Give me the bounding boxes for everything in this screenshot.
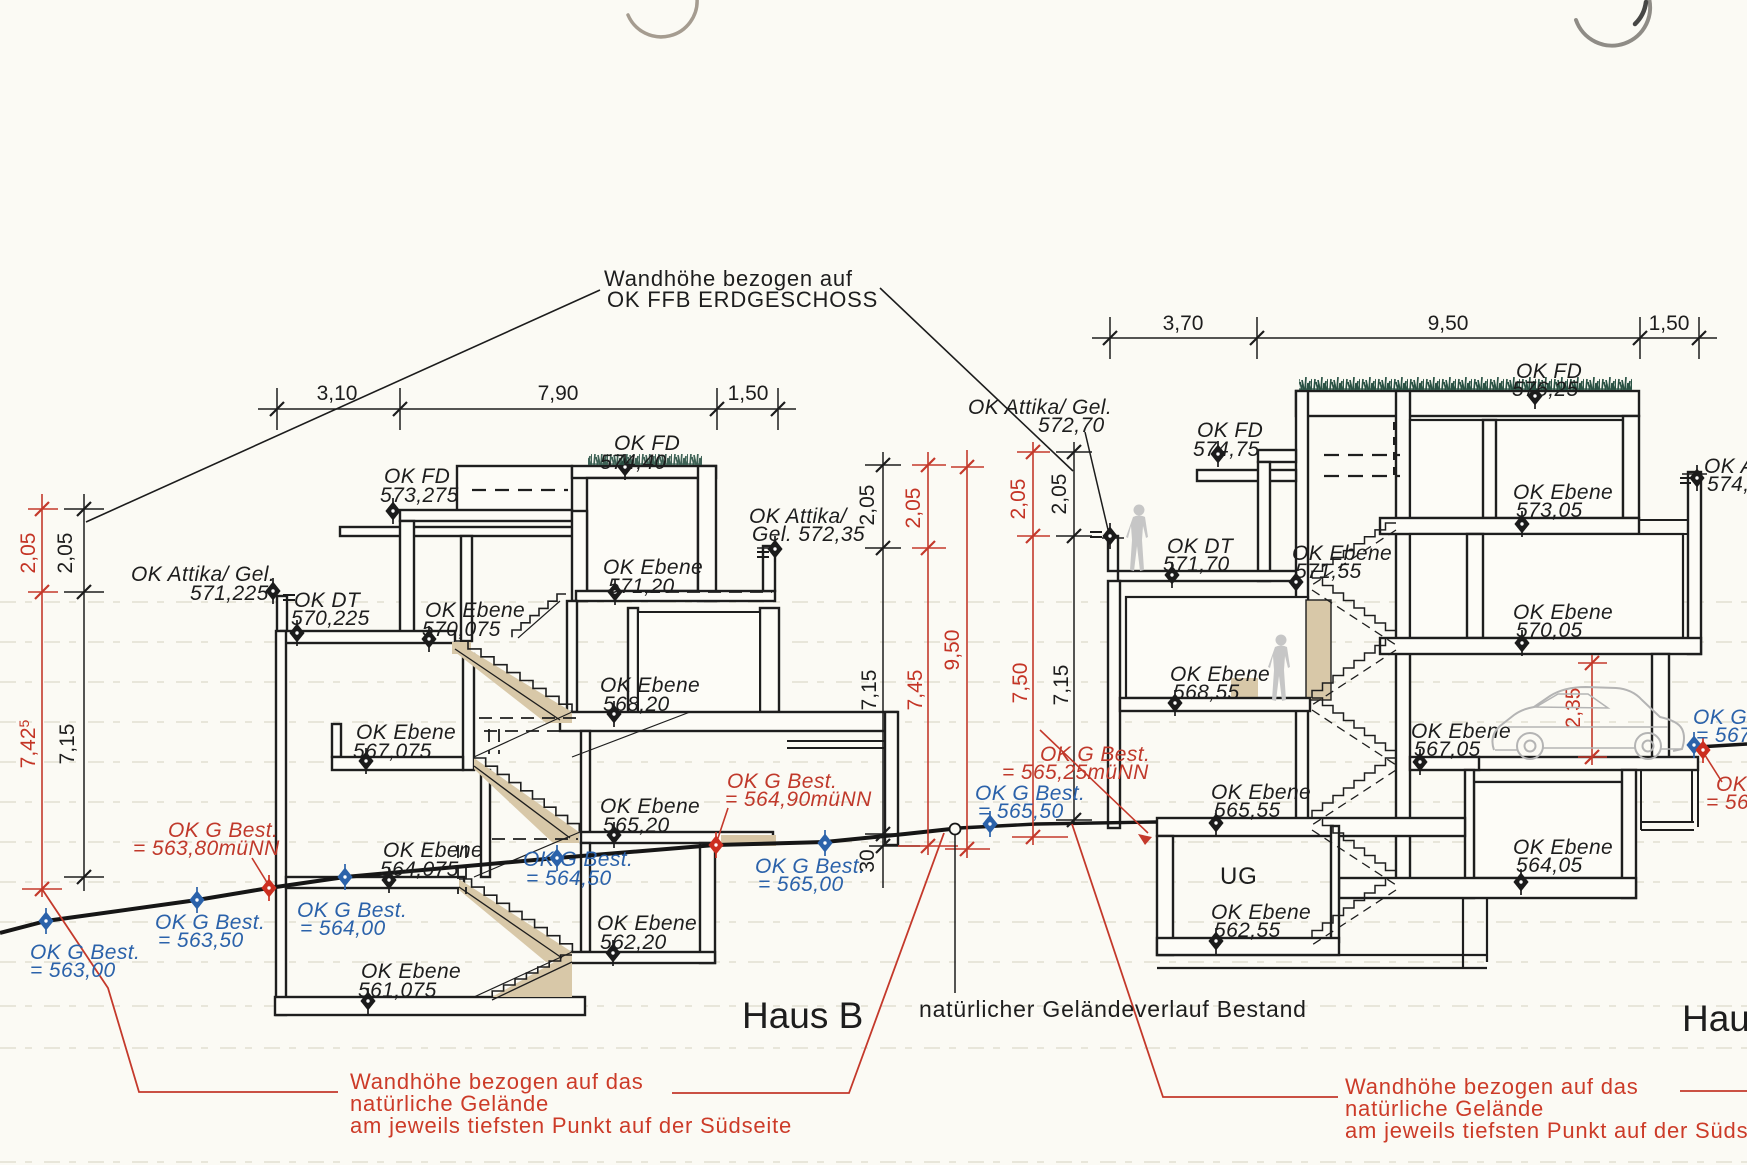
svg-text:568,20: 568,20 [603, 693, 670, 716]
svg-text:= 563,80müNN: = 563,80müNN [133, 837, 280, 860]
grass on right tower roof [1299, 377, 1632, 392]
red vertical x928 2,05/7,45 [927, 452, 929, 855]
floor slab OK Ebene 562,20 [570, 952, 715, 963]
room OK Ebene 568,55 [1126, 597, 1308, 698]
beige door in 568 room [1231, 678, 1258, 700]
red vertical x967 9,50 [966, 450, 968, 858]
red leader right bottom text [1072, 824, 1338, 1097]
parapet upstand at 567,075 [332, 724, 341, 757]
red terrain diamonds [261, 737, 1710, 901]
red leader 564,90 text to diamond [717, 808, 728, 841]
canopy slab [340, 527, 653, 536]
upper room [587, 478, 698, 591]
floor slab OK Ebene 568,20 [560, 712, 897, 731]
tower right wall [1396, 391, 1410, 890]
dashed storage in tower top [1324, 455, 1400, 476]
balcony slab right 573 level [1639, 520, 1697, 534]
svg-text:567,05: 567,05 [1414, 738, 1481, 761]
stair flight F0 [512, 594, 566, 637]
svg-text:= 564,00: = 564,00 [300, 917, 386, 940]
diagonal section lines in stair zone [474, 601, 690, 997]
floor slab OK Ebene 571,20 [576, 591, 775, 601]
svg-text:574,45: 574,45 [1707, 473, 1747, 496]
red leader left bottom text [42, 889, 338, 1092]
svg-text:2,05: 2,05 [902, 488, 925, 529]
UG right wall [1331, 826, 1339, 942]
right wall top room [1623, 416, 1639, 518]
svg-text:7,90: 7,90 [538, 382, 579, 405]
stair flight F2 [474, 758, 579, 832]
terrace slab OK DT 571,70 [1118, 571, 1296, 581]
leaders [42, 288, 1747, 1097]
svg-text:am jeweils tiefsten Punkt auf: am jeweils tiefsten Punkt auf der Südsei… [1345, 1118, 1747, 1143]
person on terrace [1126, 505, 1148, 572]
svg-text:567,075: 567,075 [353, 740, 432, 763]
floor slab OK Ebene 570,05 [1380, 638, 1701, 654]
svg-text:am jeweils tiefsten Punkt auf: am jeweils tiefsten Punkt auf der Südsei… [350, 1113, 792, 1138]
svg-text:1,50: 1,50 [728, 382, 769, 405]
svg-text:2,05: 2,05 [54, 533, 77, 574]
penthouse box roof OK FD 574,40 [457, 466, 572, 511]
svg-text:1,50: 1,50 [1649, 312, 1690, 335]
left outer wall [1108, 581, 1120, 828]
wall left of 562,20 room [581, 843, 590, 952]
svg-text:= 56: = 56 [1706, 791, 1747, 814]
svg-text:= 567,: = 567, [1696, 724, 1747, 747]
svg-text:= 564,90müNN: = 564,90müNN [725, 788, 872, 811]
stair flight F4 [492, 955, 572, 997]
dimension lines [64, 317, 1717, 891]
wall under OK FD 573,275 [400, 521, 414, 641]
top room of right part [1410, 420, 1623, 518]
markers [38, 383, 1710, 1014]
svg-text:7,15: 7,15 [56, 724, 79, 765]
svg-text:570,225: 570,225 [291, 607, 370, 630]
svg-text:7,15: 7,15 [858, 670, 881, 711]
svg-text:2,05: 2,05 [856, 485, 879, 526]
walls room 564 [1465, 770, 1474, 898]
left outer wall [276, 631, 286, 1015]
annex terrace thin slab [787, 741, 885, 748]
car silhouette [1492, 687, 1684, 759]
black level diamonds [265, 383, 1704, 1014]
svg-text:571,55: 571,55 [1295, 560, 1362, 583]
wall left of upper room [572, 511, 587, 601]
svg-text:565,55: 565,55 [1214, 799, 1281, 822]
red dimension lines [22, 442, 1607, 897]
floor slab OK Ebene 564,075 [286, 877, 464, 888]
car level floor slab [1472, 757, 1698, 770]
svg-text:9,50: 9,50 [1428, 312, 1469, 335]
person in room [1268, 635, 1290, 702]
svg-text:= 563,50: = 563,50 [158, 929, 244, 952]
svg-text:576,25: 576,25 [1512, 378, 1579, 401]
svg-text:7,50: 7,50 [1009, 663, 1032, 704]
mid vertical dim black x883 2,05/7,15/30 [882, 452, 884, 888]
ground line right of building [1698, 744, 1747, 747]
svg-text:562,20: 562,20 [600, 931, 667, 954]
svg-text:573,05: 573,05 [1516, 499, 1583, 522]
red dim 2,35 at car [1591, 655, 1593, 765]
svg-text:571,225: 571,225 [190, 582, 269, 605]
wall under 570,05 right [1652, 654, 1669, 758]
terrain line [0, 744, 1747, 933]
canopy OK FD 574,75 [1197, 470, 1296, 481]
hidden dashed lines stair zone [458, 592, 772, 894]
svg-text:= 565,00: = 565,00 [758, 873, 844, 896]
svg-text:574,40: 574,40 [600, 451, 667, 474]
svg-text:574,75: 574,75 [1193, 438, 1260, 461]
floor slab OK Ebene 573,05 [1380, 518, 1639, 534]
svg-text:= 563,00: = 563,00 [30, 959, 116, 982]
right vertical dim black x1074 2,05/7,15 [1073, 442, 1075, 822]
svg-text:Gel. 572,35: Gel. 572,35 [752, 523, 865, 546]
svg-text:570,05: 570,05 [1516, 619, 1583, 642]
left red vertical 2,05 / 7,42-5 [41, 494, 43, 897]
floor slab OK Ebene 565,55 [1157, 818, 1465, 836]
left vertical dim 2,05 + 7,15 (black) [83, 494, 85, 891]
svg-text:564,05: 564,05 [1516, 854, 1583, 877]
terrain node circle [950, 824, 961, 835]
svg-text:= 564,50: = 564,50 [526, 867, 612, 890]
punch hole left [628, 0, 697, 37]
svg-text:OK FFB ERDGESCHOSS: OK FFB ERDGESCHOSS [607, 287, 878, 312]
red underline right text [1680, 1090, 1747, 1092]
natural ground line left part [0, 829, 951, 933]
beige strip on 565,20 slab [721, 835, 776, 846]
second floor room [1410, 534, 1683, 638]
svg-text:natürlicher Geländeverlauf Bes: natürlicher Geländeverlauf Bestand [919, 996, 1307, 1022]
exterior step right [1641, 770, 1698, 830]
svg-text:570,075: 570,075 [422, 618, 501, 641]
floor slab OK Ebene 567,075 [332, 757, 463, 770]
leader natuerlicher Gelaendeverlauf [954, 835, 956, 993]
tower roof slab OK FD 576,25 [1296, 391, 1639, 416]
floor slab OK Ebene 565,20 [581, 832, 773, 843]
svg-text:9,50: 9,50 [941, 630, 964, 671]
right wall of upper room [698, 466, 716, 601]
svg-text:565,20: 565,20 [603, 814, 670, 837]
svg-text:568,55: 568,55 [1173, 681, 1240, 704]
svg-text:571,20: 571,20 [608, 575, 675, 598]
red vertical x1033 2,05/7,50 [1032, 442, 1034, 845]
svg-text:UG: UG [1220, 863, 1258, 890]
left parapet OK Attika/Gel 571,225 [277, 596, 287, 634]
blue terrain diamonds [38, 732, 1701, 934]
stair flight F3 [459, 879, 572, 952]
svg-text:2,05: 2,05 [1048, 474, 1071, 515]
svg-text:7,15: 7,15 [1050, 665, 1073, 706]
wall right of room 567/564 [463, 654, 474, 770]
bottom slab OK Ebene 561,075 [275, 997, 585, 1015]
svg-text:572,70: 572,70 [1038, 414, 1105, 437]
leader 572,70 label to attika [1085, 432, 1109, 534]
svg-text:7,45: 7,45 [904, 670, 927, 711]
svg-text:2,05: 2,05 [17, 533, 40, 574]
post under canopy [461, 536, 472, 641]
lower wing right wall [700, 843, 715, 963]
right parapet OK Attika 574,45 [1688, 472, 1701, 654]
svg-text:Haus B: Haus B [742, 995, 863, 1036]
svg-text:571,70: 571,70 [1163, 553, 1230, 576]
svg-text:2,05: 2,05 [1007, 479, 1030, 520]
wall under canopy [1258, 462, 1270, 581]
red leader right edge 567 text [1703, 752, 1722, 782]
inner wall second room [1467, 534, 1483, 638]
roof slab over upper room [572, 466, 716, 478]
room wall below (564 room right wall) [481, 770, 490, 877]
ground line under right building [959, 822, 1157, 828]
svg-text:3,10: 3,10 [317, 382, 358, 405]
upper room box outline 568,20 [638, 612, 760, 712]
room walls mid-upper (568,20 room) [567, 601, 577, 712]
svg-text:564,075: 564,075 [380, 858, 459, 881]
svg-text:= 565,50: = 565,50 [978, 800, 1064, 823]
svg-text:561,075: 561,075 [358, 979, 437, 1002]
tower left wall [1296, 391, 1308, 828]
left parapet OK Attika/Gel 572,70 [1108, 536, 1118, 571]
top dim chain right building 3,70/9,50/1,50 [1092, 337, 1717, 339]
svg-text:3,70: 3,70 [1163, 312, 1204, 335]
floor slab OK Ebene 564,05 [1339, 878, 1636, 898]
svg-text:562,55: 562,55 [1214, 919, 1281, 942]
red leader 563,80 text to diamond [252, 858, 268, 884]
svg-text:573,275: 573,275 [380, 484, 459, 507]
floor slab OK Ebene 568,55 [1120, 698, 1310, 711]
leader from Wandhoehe text to right dim [880, 288, 1073, 471]
left wing roof OK DT 570,225 [281, 631, 455, 643]
right parapet OK Attika/Gel 572,35 [763, 546, 775, 591]
grass on left building roof [588, 454, 702, 466]
equals marks next to attika diamonds [283, 478, 1691, 600]
tower stair flights [1312, 523, 1396, 938]
floor slab OK Ebene 562,55 [1157, 938, 1339, 955]
leader from Wandhoehe text to left dim [86, 290, 600, 522]
dashed line in penthouse [472, 489, 568, 491]
faint ruled scan lines [0, 602, 1747, 1162]
svg-text:Haus C: Haus C [1682, 998, 1747, 1039]
punch hole right [1576, 0, 1650, 46]
wall left of 565,20 room [581, 731, 590, 833]
stair stringer dashed diagonals [1312, 530, 1396, 945]
red leader 565,25 text to arrow [1040, 730, 1148, 833]
small slab 567,05 left [1410, 757, 1479, 770]
inner wall top room [1483, 420, 1496, 518]
roof slab left section [1258, 450, 1296, 462]
top dim chain left building 3,10/7,90/1,50 [258, 408, 796, 410]
foundation right step [1157, 898, 1487, 968]
room OK Ebene 564,05 [1474, 782, 1622, 878]
red leader underline to left text right side [672, 833, 944, 1093]
roof slab OK FD 573,275 [400, 510, 572, 521]
stair beige fills [452, 641, 579, 997]
stair flight F1 [455, 641, 572, 712]
svg-text:= 565,25müNN: = 565,25müNN [1002, 761, 1149, 784]
right annex wall [885, 712, 898, 845]
UG left wall [1157, 836, 1173, 955]
